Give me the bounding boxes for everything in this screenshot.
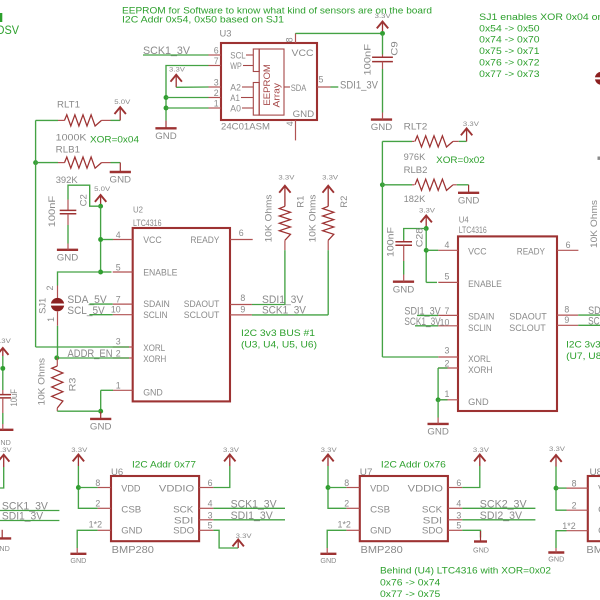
label U3	[220, 29, 232, 40]
value LTC4316 (U2)	[133, 218, 162, 228]
U3 pin 8 lead (VCC)	[295, 33, 297, 43]
svg-text:5: 5	[116, 262, 121, 272]
U3 pin 2 lead (A1)	[209, 97, 222, 99]
value 182K	[404, 194, 426, 205]
U2 pin number 1	[116, 381, 121, 391]
wire U4 SDAIN stub	[417, 314, 438, 316]
text fragment right edge	[598, 157, 600, 160]
wire U6 SDO route	[213, 530, 238, 548]
label 10K Ohms (right edge)	[589, 200, 600, 248]
svg-text:BMP280: BMP280	[112, 545, 155, 556]
U7 pin number 2	[344, 499, 349, 509]
U3 pin number 5	[319, 75, 324, 85]
U3 pin name A1	[230, 93, 240, 104]
U2 pin name VCC	[143, 235, 162, 246]
label SJ1	[37, 298, 47, 314]
svg-text:RLT2: RLT2	[404, 121, 428, 132]
U2 pin number 10	[111, 305, 121, 315]
wire U3 A0	[166, 107, 209, 109]
svg-text:10: 10	[111, 305, 121, 315]
svg-text:RLT1: RLT1	[57, 99, 80, 110]
U2 pin name SCLIN	[143, 310, 168, 321]
svg-text:SDAIN: SDAIN	[468, 312, 494, 323]
U3 pin name A0	[230, 103, 241, 114]
svg-text:0x76 -> 0x74: 0x76 -> 0x74	[380, 577, 441, 588]
svg-text:6: 6	[239, 228, 244, 238]
U7 pin 4 lead	[448, 507, 462, 509]
svg-text:XOR=0x02: XOR=0x02	[436, 155, 485, 166]
comment I2C Addr 0x76	[381, 459, 446, 470]
svg-text:5.0V: 5.0V	[114, 99, 131, 106]
U6 pin 5 lead	[199, 529, 213, 531]
label RLB2	[404, 165, 428, 176]
wire C9 top	[382, 33, 384, 54]
U6 pin name SDI	[174, 515, 194, 526]
svg-text:VCC: VCC	[143, 235, 162, 246]
U4 pin 3 lead	[438, 356, 458, 358]
U6 pin name SCK	[173, 504, 194, 515]
svg-text:0x54 -> 0x50: 0x54 -> 0x50	[479, 23, 539, 34]
ground U7	[320, 548, 336, 565]
svg-text:XORL: XORL	[468, 354, 491, 365]
svg-text:OSV: OSV	[0, 23, 20, 37]
net label SDI1_3V (left)	[2, 510, 44, 522]
svg-text:8: 8	[572, 479, 577, 489]
wire R2 down	[327, 250, 329, 315]
svg-text:1000K: 1000K	[56, 132, 87, 143]
svg-text:GND: GND	[320, 558, 336, 565]
U2 pin number 2	[116, 348, 121, 358]
svg-text:GND: GND	[371, 122, 393, 133]
svg-text:U3: U3	[220, 29, 232, 40]
svg-text:SCK1_3V: SCK1_3V	[262, 305, 306, 317]
U3 pin number 7	[214, 56, 219, 66]
U3 rotated text EEPROM	[262, 64, 273, 106]
U7 pin number 8	[344, 478, 349, 488]
wire SCK1_3V left stub	[0, 510, 59, 512]
svg-text:SCL: SCL	[230, 50, 246, 61]
U6 pin 8 lead	[98, 487, 111, 489]
svg-text:4: 4	[444, 240, 449, 250]
svg-text:A2: A2	[230, 82, 241, 93]
net label SCK2_3V (U7)	[480, 498, 527, 510]
U8 pin number 8	[572, 479, 577, 489]
U6 pin 3 lead	[199, 519, 213, 521]
svg-text:CSB: CSB	[370, 504, 390, 515]
wire U2 SCLOUT	[252, 314, 328, 316]
value LTC4316 (U4)	[459, 225, 487, 235]
U3 pin number 8	[285, 37, 295, 42]
svg-text:SJ1: SJ1	[37, 298, 47, 314]
svg-text:GND: GND	[0, 546, 10, 553]
svg-text:3.3V: 3.3V	[321, 447, 338, 454]
U7 pin number 6	[456, 478, 461, 488]
U6 pin number 5	[208, 520, 213, 530]
U6 pin 1*2 lead	[98, 529, 111, 531]
label C9	[389, 41, 400, 56]
svg-text:A0: A0	[230, 103, 241, 114]
svg-text:3: 3	[208, 510, 213, 520]
label RLB1	[56, 145, 80, 156]
U3 pin name A2	[230, 82, 241, 93]
label 100nF (C2)	[47, 196, 58, 228]
svg-text:LTC4316: LTC4316	[133, 218, 162, 228]
label C2	[78, 194, 89, 206]
svg-text:0x75 -> 0x71: 0x75 -> 0x71	[479, 46, 539, 57]
U7 pin name CSB	[370, 504, 390, 515]
wire U2 GND down	[100, 390, 102, 411]
svg-text:6: 6	[566, 240, 571, 250]
svg-text:GND: GND	[548, 557, 564, 564]
IC U6 body	[111, 476, 199, 541]
U7 pin name SDI	[423, 515, 443, 526]
junction U8 VDD node	[554, 486, 559, 491]
U6 pin name GND	[121, 526, 142, 537]
ground 10uF label	[0, 440, 11, 447]
U3 pin number 2	[214, 88, 219, 98]
U6 pin number 8	[95, 478, 100, 488]
U4 pin number 9	[564, 315, 569, 325]
U3 inner bracket bottom	[253, 83, 259, 116]
comment text OSV fragment	[0, 23, 20, 37]
svg-text:100nF: 100nF	[47, 196, 58, 228]
net label ADDR_EN	[68, 348, 113, 360]
net label SDI1_3V (U6)	[231, 510, 274, 522]
junction U2 VCC node	[98, 237, 103, 242]
solder jumper SJ1 pin1 lead	[57, 311, 59, 326]
wire U7 VDD	[328, 487, 346, 489]
wire U6 VDD riser	[78, 466, 97, 508]
svg-text:SCLIN: SCLIN	[143, 310, 168, 321]
U8 pin 1*2 lead	[567, 530, 588, 532]
U6 pin number 2	[95, 499, 100, 509]
U8 pin name VDD	[598, 484, 600, 495]
label U6	[111, 467, 123, 478]
svg-text:3: 3	[214, 77, 219, 87]
svg-text:I2C Addr 0x76: I2C Addr 0x76	[381, 459, 446, 470]
U2 pin 1 lead	[113, 389, 133, 391]
comment 0x76-0x72	[479, 58, 539, 69]
comment I2C bus1 line1	[241, 328, 315, 339]
net label SCK1_3V (U2 SCLOUT)	[262, 305, 306, 317]
value 24C01ASM	[221, 121, 270, 132]
U3 inner stub A2	[242, 86, 253, 88]
ground C9	[371, 113, 393, 134]
comment 0x77-0x75	[380, 589, 440, 600]
svg-text:3.3V: 3.3V	[473, 447, 490, 454]
wire ENABLE to SJ1 pin2	[58, 272, 101, 286]
svg-text:3.3V: 3.3V	[375, 13, 392, 20]
wire U4 SCLOUT stub	[578, 324, 600, 326]
svg-text:8: 8	[285, 37, 295, 42]
wire U6 VDDIO	[213, 466, 229, 488]
U6 pin name CSB	[121, 504, 141, 515]
U7 pin number 1*2	[338, 520, 351, 530]
svg-text:3.3V: 3.3V	[0, 447, 13, 454]
U4 pin 10 lead	[438, 325, 458, 327]
net label SCK1_3V (U3 SCL)	[143, 45, 191, 57]
U2 pin 4 lead	[113, 239, 133, 241]
svg-text:GND: GND	[70, 558, 86, 565]
svg-text:5: 5	[319, 75, 324, 85]
label U8	[590, 467, 600, 478]
U2 pin name SDAOUT	[184, 299, 220, 310]
wire U6 SCK	[213, 507, 285, 509]
svg-text:100nF: 100nF	[386, 227, 397, 257]
svg-text:U7: U7	[360, 467, 373, 478]
wire C28 route	[404, 229, 427, 241]
svg-text:XORH: XORH	[468, 365, 492, 376]
svg-text:0x76 -> 0x72: 0x76 -> 0x72	[479, 58, 539, 69]
svg-text:5: 5	[444, 272, 449, 282]
wire U7 SCK	[462, 507, 535, 509]
U8 pin 8 lead	[567, 487, 588, 489]
svg-text:C9: C9	[389, 41, 400, 56]
svg-text:GND: GND	[370, 526, 391, 537]
comment 0x77-0x73	[479, 69, 539, 80]
comment I2C bus2 line1	[566, 340, 600, 351]
U6 pin number 3	[208, 510, 213, 520]
U4 pin number 10	[440, 317, 450, 327]
svg-text:XOR=0x04: XOR=0x04	[90, 135, 140, 146]
svg-text:VCC: VCC	[292, 48, 314, 59]
svg-text:8: 8	[564, 305, 569, 315]
wire RLB2 right	[457, 184, 469, 186]
svg-text:(U3, U4, U5, U6): (U3, U4, U5, U6)	[241, 340, 317, 351]
label C28	[415, 228, 426, 248]
comment 0x54-0x50	[479, 23, 539, 34]
capacitor C2	[60, 200, 77, 226]
svg-text:4: 4	[208, 499, 213, 509]
svg-text:2: 2	[344, 499, 349, 509]
label RLT1	[57, 99, 80, 110]
U6 pin number 4	[208, 499, 213, 509]
label 10K Ohms (R1)	[263, 194, 274, 242]
svg-text:SDO: SDO	[422, 526, 443, 537]
ground U7 SDO	[473, 531, 489, 554]
svg-text:SCK2_3V: SCK2_3V	[480, 498, 527, 510]
R3 top lead	[56, 358, 58, 366]
U2 pin number 7	[116, 294, 121, 304]
U7 pin name SCK	[422, 504, 443, 515]
svg-text:R1: R1	[296, 196, 307, 208]
ground U2	[90, 411, 112, 432]
U3 pin number 3	[214, 77, 219, 87]
ground C2	[57, 244, 79, 264]
svg-text:0x74 -> 0x70: 0x74 -> 0x70	[479, 35, 539, 46]
svg-text:3: 3	[116, 337, 121, 347]
wire RLB1 right	[111, 162, 121, 164]
U2 pin name XORL	[143, 343, 166, 354]
U4 pin 2 lead	[438, 367, 458, 369]
net label SDI1_3V (U4 SDAIN)	[404, 305, 441, 317]
U3 pin 5 lead (SDA)	[317, 86, 331, 88]
svg-text:4: 4	[285, 121, 295, 126]
svg-text:3.3V: 3.3V	[0, 338, 12, 345]
wire U6 GND route	[77, 530, 97, 548]
U3 pin name SCL	[230, 50, 246, 61]
svg-text:10K Ohms: 10K Ohms	[37, 358, 48, 406]
supply 5.0V at RLT1	[114, 99, 131, 120]
svg-text:9: 9	[564, 315, 569, 325]
svg-text:U4: U4	[459, 216, 469, 225]
U7 pin 2 lead	[346, 507, 359, 509]
comment Behind U4	[380, 565, 551, 576]
U2 pin name SCLOUT	[184, 310, 220, 321]
svg-text:3.3V: 3.3V	[71, 447, 88, 454]
svg-text:3: 3	[456, 510, 461, 520]
U2 pin number 3	[116, 337, 121, 347]
U4 pin number 1	[444, 389, 449, 399]
wire U7 SDO route	[462, 530, 480, 537]
ground 10uF	[0, 424, 13, 430]
svg-text:182K: 182K	[404, 194, 426, 205]
solder jumper SJ1	[50, 298, 65, 311]
svg-text:1: 1	[214, 98, 219, 108]
svg-text:R3: R3	[68, 378, 79, 392]
wire 10uF top	[2, 356, 4, 390]
net label SDI1_3V (U2 SDAOUT)	[262, 294, 304, 306]
U3 pin name WP	[230, 61, 242, 72]
ground U4	[427, 400, 449, 438]
U4 pin name SCLIN	[468, 323, 492, 334]
label U2	[133, 205, 143, 214]
U2 pin number 8	[240, 293, 245, 303]
wire 5.0V down to VCC/ENABLE	[100, 206, 102, 272]
svg-text:4: 4	[456, 499, 461, 509]
junction C28 node	[424, 226, 429, 231]
U3 inner bracket top	[253, 49, 259, 72]
wire U2 VCC	[101, 239, 113, 241]
U3 pin 1 lead (A0)	[209, 107, 222, 109]
wire fragment top-left	[0, 13, 2, 22]
wire C28 bottom	[403, 261, 405, 275]
svg-text:GND: GND	[293, 109, 315, 120]
label 100nF (C9)	[362, 44, 373, 76]
wire U7 VDD riser	[328, 466, 346, 508]
svg-text:10: 10	[440, 317, 450, 327]
label 10uF	[9, 389, 20, 407]
junction U2 ENABLE node	[98, 270, 103, 275]
net label SDI2_3V (U4 SDAOUT)	[588, 305, 600, 317]
wire U3 A2	[176, 86, 208, 88]
wire U8 GND route	[556, 531, 567, 548]
wire U3 WP down to GND	[166, 66, 209, 121]
svg-text:SDI1_3V: SDI1_3V	[231, 510, 274, 522]
supply 3.3V left edge (10uF)	[0, 338, 12, 356]
U3 pin 7 lead (WP)	[209, 65, 222, 67]
U2 pin 9 lead (SCLOUT)	[230, 314, 252, 316]
U4 pin name XORL	[468, 354, 491, 365]
U3 inner stub A1	[241, 97, 253, 99]
svg-text:VDD: VDD	[370, 484, 389, 495]
junction 10uF node	[0, 366, 5, 371]
label R1	[296, 196, 307, 208]
U4 pin 9 lead (SCLOUT)	[557, 324, 578, 326]
wire SDI1_3V left stub	[0, 520, 59, 522]
svg-text:8: 8	[344, 478, 349, 488]
comment SJ1 enables XOR line	[479, 12, 600, 23]
wire 3.3V down to U4 VCC	[425, 229, 427, 283]
U2 pin 5 lead	[113, 271, 133, 273]
svg-text:LTC4316: LTC4316	[459, 225, 487, 235]
svg-text:3.3V: 3.3V	[549, 446, 566, 453]
SJ1 pin number 1	[46, 317, 56, 322]
svg-text:U2: U2	[133, 205, 143, 214]
IC U4 body	[458, 236, 557, 411]
wire U6 VDD	[78, 487, 97, 489]
svg-text:SDAIN: SDAIN	[143, 299, 170, 310]
svg-text:3.3V: 3.3V	[463, 121, 480, 128]
supply 3.3V at C9	[375, 13, 392, 32]
net label SCK1_3V (U4 SCLIN)	[404, 316, 441, 328]
comment XOR=0x02	[436, 155, 485, 166]
IC U8 body	[588, 476, 600, 541]
svg-text:100nF: 100nF	[362, 44, 373, 76]
svg-text:10K Ohms: 10K Ohms	[589, 200, 600, 248]
net label SCK2_3V (U4 SCLOUT)	[588, 316, 600, 328]
U4 pin 5 lead	[438, 281, 458, 283]
U2 pin number 4	[116, 230, 121, 240]
wire RLT2 right	[459, 140, 467, 142]
U7 pin 3 lead	[448, 519, 462, 521]
wire SCK1_3V to U3 SCL	[143, 54, 209, 56]
U2 pin name XORH	[143, 354, 166, 365]
svg-text:7: 7	[116, 294, 121, 304]
wire U3 A1	[166, 97, 209, 99]
svg-text:5.0V: 5.0V	[94, 186, 111, 193]
U2 pin 8 lead (SDAOUT)	[230, 304, 252, 306]
svg-text:A1: A1	[230, 93, 240, 104]
U4 pin number 3	[444, 346, 449, 356]
IC U2 body	[133, 228, 230, 401]
label R2	[339, 196, 350, 208]
U2 pin 10 lead	[113, 314, 133, 316]
U4 pin number 5	[444, 272, 449, 282]
svg-text:SDAOUT: SDAOUT	[509, 312, 547, 323]
svg-text:5: 5	[456, 520, 461, 530]
svg-text:SCLOUT: SCLOUT	[509, 323, 546, 334]
U2 pin name SDAIN	[143, 299, 170, 310]
svg-text:VDD: VDD	[121, 484, 140, 495]
U6 pin 4 lead	[199, 507, 213, 509]
supply 3.3V at R1	[278, 175, 295, 207]
svg-text:C28: C28	[415, 228, 426, 248]
svg-text:9: 9	[240, 304, 245, 314]
comment EEPROM note line 2	[122, 15, 284, 26]
label U7	[360, 467, 373, 478]
junction A1 node	[164, 95, 169, 100]
wire U4 GND	[438, 399, 447, 401]
U8 pin number 2	[572, 501, 577, 511]
wire U2 XORL	[36, 346, 129, 348]
wire U3 SDA stub	[331, 86, 339, 88]
U8 pin name CSB	[598, 504, 600, 515]
wire U2 XORH	[57, 357, 129, 359]
svg-text:1*2: 1*2	[562, 521, 575, 531]
svg-text:SCK: SCK	[173, 504, 194, 515]
wire RLB2 left	[382, 184, 412, 186]
wire U4 ENABLE	[426, 281, 437, 283]
U2 pin name ENABLE	[143, 267, 177, 278]
svg-text:2: 2	[45, 286, 55, 291]
wire U4 XORL from node2	[382, 356, 438, 358]
svg-text:1*2: 1*2	[89, 520, 102, 530]
U7 pin 6 lead	[448, 487, 462, 489]
svg-text:U6: U6	[111, 467, 123, 478]
U3 inner stub SCL	[246, 54, 253, 56]
U6 pin 2 lead	[98, 507, 111, 509]
